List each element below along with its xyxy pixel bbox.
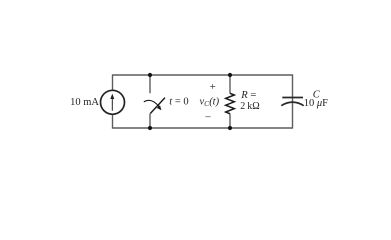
node D: bottom-right junction dot	[228, 126, 232, 130]
svg-text:t = 0: t = 0	[169, 97, 188, 108]
switch S1 arc arrow head	[157, 105, 162, 110]
svg-text:−: −	[205, 112, 211, 124]
capacitor C top plate	[282, 97, 303, 99]
svg-text:+: +	[210, 81, 216, 93]
svg-text:10 μF: 10 μF	[304, 98, 328, 109]
current source I1 circle	[101, 90, 125, 114]
svg-text:vC(t): vC(t)	[200, 96, 220, 108]
current source I1 arrow head	[110, 94, 114, 99]
wire: top rail	[113, 74, 293, 76]
wire: switch branch lower stub	[149, 114, 151, 128]
wire: bottom rail	[113, 127, 293, 129]
capacitor C bottom curved plate	[281, 102, 303, 106]
node B: top-right junction dot	[228, 73, 232, 77]
node A: top-left junction dot	[148, 73, 152, 77]
svg-text:2 kΩ: 2 kΩ	[240, 101, 259, 112]
wire: right branch (capacitor lead)	[292, 74, 294, 128]
wire: switch branch upper stub	[149, 75, 151, 93]
node C: bottom-left junction dot	[148, 126, 152, 130]
wire: left branch lower segment	[112, 114, 114, 129]
svg-text:R =: R =	[240, 90, 256, 101]
resistor R zigzag	[226, 93, 235, 114]
switch S1 opening arc	[144, 100, 160, 107]
svg-text:10 mA: 10 mA	[70, 97, 99, 108]
wire: resistor branch upper lead	[229, 75, 231, 93]
wire: left branch upper segment	[112, 74, 114, 90]
switch S1 blade	[150, 98, 165, 114]
wire: resistor branch lower lead	[229, 114, 231, 128]
current source I1 arrow shaft	[111, 98, 113, 111]
